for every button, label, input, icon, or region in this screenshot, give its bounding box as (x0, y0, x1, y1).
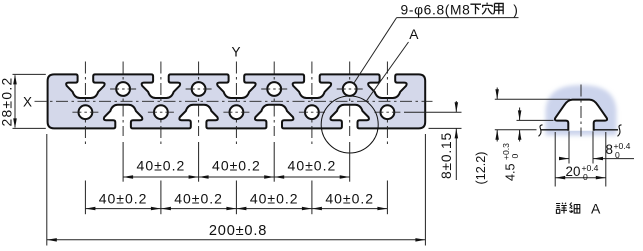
svg-text:Y: Y (231, 45, 240, 60)
svg-text:40±0.2: 40±0.2 (250, 191, 299, 207)
svg-text:200±0.8: 200±0.8 (209, 223, 267, 239)
column centerline bottom-slot 1 (122, 62, 124, 137)
column centerline top-slot 4 (311, 62, 313, 145)
detail highlight blob (546, 85, 617, 136)
hole phi6.8 lower row #1 (72, 105, 98, 119)
svg-text:40±0.2: 40±0.2 (174, 191, 223, 207)
dim row2 40±0.2 x4 (84, 181, 86, 215)
hole phi6.8 lower row #2 (148, 105, 174, 119)
svg-text:40±0.2: 40±0.2 (288, 157, 337, 173)
dim row1 40±0.2 x3 (122, 142, 124, 182)
caption 詳細 A (556, 203, 567, 214)
svg-text:A: A (409, 27, 419, 42)
detail bottom surface line left with break (495, 129, 537, 131)
detail circle A (321, 96, 378, 153)
dim 20 +0.4/0 cavity width (554, 132, 556, 187)
column centerline top-slot 1 (84, 62, 86, 145)
leader 9-phi6.8 (397, 17, 519, 19)
svg-text:40±0.2: 40±0.2 (212, 157, 261, 173)
svg-text:9-φ6.8(M8: 9-φ6.8(M8 (401, 3, 471, 18)
column centerline bottom-slot 4 (349, 62, 351, 137)
svg-text:8: 8 (606, 142, 613, 157)
svg-text:8±0.15: 8±0.15 (439, 132, 454, 179)
X centerline (35, 100, 433, 102)
detail slot cavity outline (555, 100, 607, 131)
hole phi6.8 upper row #2 (186, 82, 212, 96)
hole phi6.8 upper row #3 (261, 82, 287, 96)
detail centerline (580, 85, 582, 137)
hole phi6.8 upper row #1 (110, 82, 136, 96)
svg-text:28±0.2: 28±0.2 (0, 77, 14, 127)
dim 8±0.15 (404, 111, 462, 113)
svg-text:): ) (513, 3, 518, 18)
column centerline bottom-slot 2 (198, 62, 200, 137)
svg-text:0: 0 (615, 150, 620, 160)
hole phi6.8 upper row #4 (337, 82, 363, 96)
svg-text:0: 0 (583, 172, 588, 182)
svg-text:40±0.2: 40±0.2 (137, 157, 186, 173)
column centerline top-slot 2 (160, 62, 162, 145)
column centerline top-slot 3 (235, 62, 237, 145)
svg-text:X: X (23, 94, 32, 109)
hole phi6.8 lower row #3 (223, 105, 249, 119)
svg-text:40±0.2: 40±0.2 (99, 191, 148, 207)
dim 200±0.8 (46, 134, 48, 246)
column centerline bottom-slot 3 (273, 62, 275, 137)
dim 28±0.2 (13, 73, 46, 75)
hole phi6.8 lower row #4 (299, 105, 325, 119)
svg-text:0: 0 (510, 154, 520, 159)
kanji 下穴用 in note (470, 4, 481, 14)
column centerline top-slot 5 (386, 62, 388, 145)
extrusion profile body (48, 74, 426, 128)
svg-text:40±0.2: 40±0.2 (325, 191, 374, 207)
svg-text:(12.2): (12.2) (474, 152, 488, 185)
svg-text:20: 20 (566, 164, 581, 179)
svg-text:4.5: 4.5 (504, 163, 518, 181)
svg-text:A: A (591, 201, 601, 217)
dim 8 +0.4/0 neck width (568, 131, 570, 163)
dim (12.2) (495, 98, 570, 100)
hole phi6.8 lower row #5 (374, 105, 400, 119)
dim 4.5 +0.3/0 (517, 119, 554, 121)
detail bottom surface line right with break (594, 129, 618, 131)
leader A (366, 42, 408, 101)
